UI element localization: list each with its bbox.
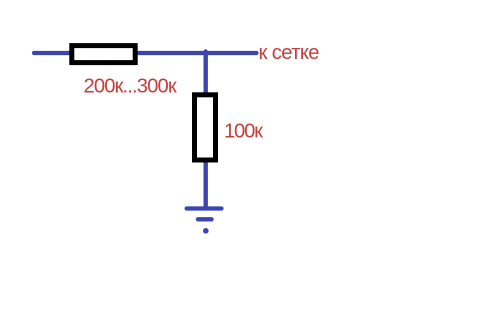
svg-text:к сетке: к сетке <box>259 42 320 64</box>
svg-text:200к...300к: 200к...300к <box>84 75 177 97</box>
svg-text:100к: 100к <box>224 120 263 142</box>
